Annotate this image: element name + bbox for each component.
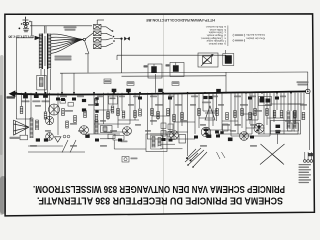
- bottom caps extra: [95, 139, 99, 142]
- caps under bus more: [248, 97, 252, 100]
- stacked boxes K-left: [161, 123, 173, 137]
- wire mains to transformer: [16, 37, 33, 39]
- label box G1: [172, 82, 179, 86]
- coil x96: [95, 120, 98, 134]
- bus capacitor C6: [158, 89, 163, 92]
- bus terminal right: [306, 89, 311, 94]
- second top wire: [122, 75, 227, 77]
- IF can B: [170, 63, 184, 77]
- small boxes x62-70: [60, 100, 74, 107]
- resistor field: [20, 99, 305, 129]
- small box left of can J: [113, 136, 124, 141]
- tube V1b base: [46, 133, 54, 141]
- vertical wires: [16, 38, 309, 156]
- bus arrowhead left: [9, 90, 16, 97]
- tube V7 base: [254, 123, 264, 133]
- mains arrow bowtie: [35, 36, 41, 40]
- bus terminal label: [297, 81, 309, 85]
- mains plug symbol: [23, 17, 32, 36]
- bus capacitor C7: [216, 89, 221, 92]
- mark near right edge: [308, 153, 313, 156]
- can above bus: [37, 75, 46, 90]
- label box F1: [104, 79, 111, 84]
- transformer T1: [39, 34, 51, 70]
- bottom box J1: [108, 134, 115, 138]
- bus capacitor C1: [23, 95, 28, 99]
- component cluster H1: [259, 97, 272, 106]
- svg-text:g. Haut parleur.: g. Haut parleur.: [208, 42, 226, 46]
- scan fold line center: [163, 15, 165, 214]
- wire vert right of canD: [225, 50, 227, 54]
- bottom cap k2: [206, 135, 211, 138]
- label box F2: [127, 82, 134, 86]
- bottom caps L: [276, 125, 281, 128]
- stacked caps x84: [82, 99, 86, 102]
- transformer bottom leads: [40, 69, 42, 75]
- assorted tiny labels: [30, 96, 307, 147]
- coil L2: [287, 111, 290, 129]
- switch contacts bottom: [186, 149, 198, 162]
- speaker cone: [14, 120, 29, 135]
- bus capacitor C2: [34, 94, 39, 98]
- legend color label: [245, 33, 265, 39]
- tube V1 base: [45, 116, 53, 124]
- can between tubes: [101, 126, 113, 133]
- crossed wires bottom right: [260, 144, 285, 165]
- potentiometer arrow: [205, 106, 215, 120]
- switch wiper fan: [185, 148, 207, 167]
- bus capacitor C3: [43, 94, 48, 98]
- switch diagonal wires left: [62, 140, 68, 153]
- tube V2 base: [80, 126, 89, 135]
- IF can A: [148, 64, 162, 78]
- mid horizontal wires: [16, 104, 304, 152]
- box mid x108: [109, 96, 118, 104]
- caps right of V6: [215, 131, 219, 134]
- paper inside frame: [6, 15, 313, 214]
- bottom tube V8: [170, 131, 179, 140]
- caps x63: [61, 98, 65, 101]
- svg-text:SCHEMA DE PRINCIPE DU RECEPTEU: SCHEMA DE PRINCIPE DU RECEPTEUR 836 ALTE…: [37, 194, 283, 205]
- coil L1: [30, 118, 33, 138]
- bottom triangle I: [55, 137, 62, 142]
- wire y148.8: [160, 148, 183, 150]
- wires to terminals: [304, 152, 306, 160]
- legend brace row 2: [233, 39, 245, 42]
- part number list (tiny): [299, 164, 312, 183]
- wire top from plug: [25, 17, 27, 27]
- legend brace row 1: [233, 34, 245, 37]
- svg-text:Kleur der draden.: Kleur der draden.: [245, 37, 265, 40]
- scan shadow left edge: [0, 55, 6, 215]
- bottom box I1: [20, 135, 28, 140]
- transformer top lead: [44, 26, 46, 34]
- tube V6 innards: [204, 129, 208, 131]
- bottom box K1: [179, 135, 186, 144]
- bottom cap k3: [228, 138, 233, 142]
- bus capacitor C4: [112, 89, 117, 92]
- top wire: [60, 72, 308, 73]
- bottom can J: [146, 134, 167, 152]
- left column blobs x97: [95, 97, 98, 100]
- upper link wire y55: [117, 54, 226, 56]
- coil L3: [293, 111, 296, 129]
- dial lamp box: [122, 157, 129, 163]
- box x225: [223, 124, 229, 131]
- IF component dark D: [223, 54, 234, 66]
- bottom caps I: [36, 138, 40, 141]
- bottom tube V9: [240, 132, 249, 141]
- caps under bus G: [203, 96, 207, 99]
- bottom small circles I: [63, 135, 70, 138]
- bus junction dots: [15, 92, 292, 94]
- wire fan to selector: [85, 33, 93, 39]
- tube V6 base: [201, 127, 211, 137]
- wire top to terminal: [307, 72, 309, 91]
- tube V3 base: [123, 127, 132, 136]
- bottom can L: [271, 121, 301, 135]
- legend bracket bar: [227, 26, 229, 47]
- terminal circles bottom right: [304, 160, 313, 163]
- svg-text:Couleurs des fils.: Couleurs des fils.: [246, 33, 265, 36]
- coil L1b: [36, 120, 39, 130]
- transformer label: [55, 56, 72, 61]
- tube V0 big: [49, 104, 60, 115]
- svg-text:PRINCIEP SCHEMA VAN DEN ONTVAN: PRINCIEP SCHEMA VAN DEN ONTVANGER 836 WI…: [33, 183, 285, 194]
- voltage selector taps: [94, 20, 114, 49]
- MSP label left margin: [7, 96, 16, 98]
- bottom cap J0: [85, 135, 89, 138]
- main bus wire: [11, 91, 306, 94]
- svg-text:HTTP://WWW.RADIOCOLLECTION.BE: HTTP://WWW.RADIOCOLLECTION.BE: [146, 18, 215, 22]
- legend list (upside down): [200, 25, 226, 46]
- cable fan label: [64, 26, 77, 31]
- speaker label: [10, 137, 20, 139]
- cable fan from transformer: [51, 34, 86, 53]
- bus capacitor C5: [126, 89, 131, 92]
- trimmer can C: [198, 53, 218, 67]
